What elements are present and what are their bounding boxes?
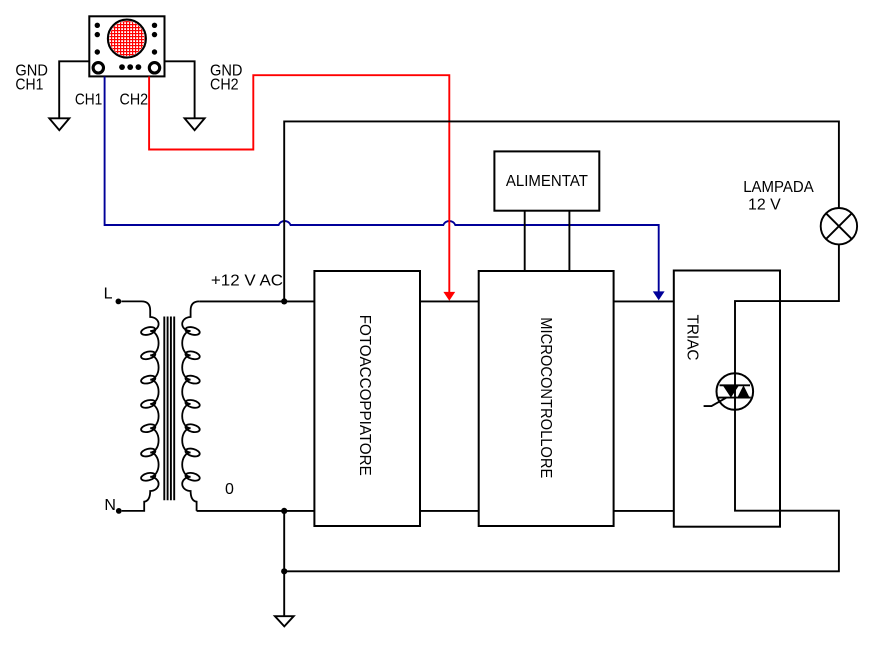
oscilloscope U1 body bbox=[89, 16, 164, 76]
transformer T1 secondary winding bbox=[182, 301, 199, 511]
label GND CH2 bbox=[210, 62, 243, 93]
node junction return bbox=[281, 568, 287, 574]
svg-text:N: N bbox=[104, 497, 116, 514]
svg-text:L: L bbox=[104, 286, 113, 303]
svg-text:FOTOACCOPPIATORE: FOTOACCOPPIATORE bbox=[356, 315, 373, 476]
ground GND CH2 symbol bbox=[185, 118, 205, 130]
svg-text:CH1: CH1 bbox=[15, 77, 43, 94]
svg-text:CH1: CH1 bbox=[75, 92, 102, 109]
node junction top bbox=[281, 298, 287, 304]
node junction bottom bbox=[281, 508, 287, 514]
box ALIMENTAT bbox=[494, 151, 599, 210]
svg-text:LAMPADA: LAMPADA bbox=[743, 179, 814, 196]
svg-text:12 V: 12 V bbox=[748, 197, 781, 214]
transformer T1 primary terminal N bbox=[116, 508, 122, 514]
wire CH1 probe (blue) bbox=[105, 77, 659, 292]
transformer T1 core bbox=[164, 317, 174, 501]
wire +12V rail segments bbox=[199, 300, 674, 302]
wire lamp to triac and bottom return bbox=[284, 244, 839, 571]
svg-text:ALIMENTAT: ALIMENTAT bbox=[506, 173, 588, 190]
svg-text:CH2: CH2 bbox=[210, 77, 239, 94]
svg-text:MICROCONTROLLORE: MICROCONTROLLORE bbox=[537, 317, 554, 478]
wire 0V rail segments bbox=[197, 510, 674, 512]
wire ALIMENTAT to MICROCONTROLLORE bbox=[525, 211, 570, 271]
box FOTOACCOPPIATORE bbox=[314, 271, 420, 526]
transformer T1 primary winding bbox=[122, 301, 159, 511]
oscilloscope ground wire right bbox=[165, 61, 195, 117]
wire to bottom ground bbox=[283, 511, 285, 616]
label LAMPADA 12 V bbox=[743, 179, 814, 213]
ground GND CH1 symbol bbox=[49, 118, 69, 130]
label GND CH1 bbox=[15, 62, 48, 93]
svg-text:0: 0 bbox=[225, 481, 234, 498]
box TRIAC bbox=[674, 271, 780, 527]
svg-text:TRIAC: TRIAC bbox=[684, 315, 701, 361]
triac symbol bbox=[704, 373, 754, 410]
wire top rail bbox=[284, 121, 839, 301]
wire CH2 probe (red) bbox=[149, 75, 449, 292]
svg-text:+12 V AC: +12 V AC bbox=[211, 272, 283, 289]
svg-text:CH2: CH2 bbox=[120, 92, 149, 109]
lamp LAMPADA symbol bbox=[821, 208, 857, 244]
box MICROCONTROLLORE bbox=[479, 271, 614, 526]
transformer T1 primary terminal L bbox=[116, 299, 122, 305]
oscilloscope ground wire left bbox=[59, 61, 89, 117]
ground bottom symbol bbox=[275, 616, 294, 626]
